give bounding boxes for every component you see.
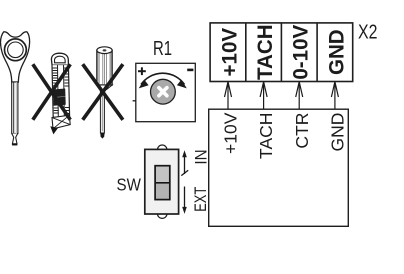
- svg-text:X2: X2: [358, 20, 377, 43]
- svg-text:CTR: CTR: [292, 113, 312, 149]
- svg-text:R1: R1: [153, 36, 172, 59]
- svg-text:EXT: EXT: [191, 187, 210, 212]
- svg-text:GND: GND: [328, 113, 348, 152]
- svg-text:+10V: +10V: [218, 28, 241, 77]
- svg-text:GND: GND: [325, 29, 348, 75]
- svg-text:+10V: +10V: [221, 112, 241, 154]
- svg-text:TACH: TACH: [254, 24, 277, 80]
- svg-text:IN: IN: [192, 149, 211, 164]
- svg-text:TACH: TACH: [256, 113, 276, 159]
- svg-text:SW: SW: [117, 176, 142, 195]
- svg-text:0-10V: 0-10V: [289, 25, 312, 80]
